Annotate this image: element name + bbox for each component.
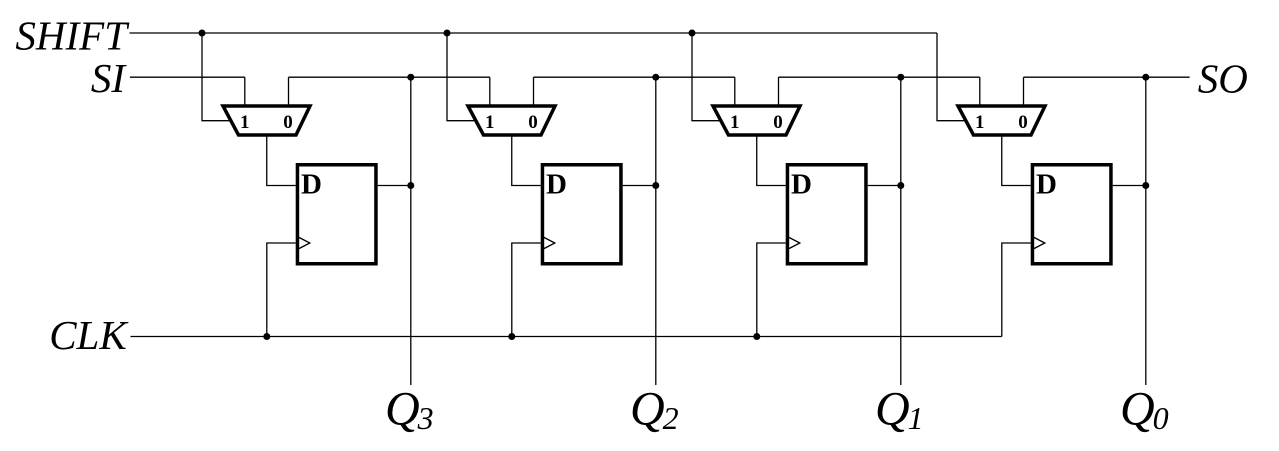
- junction Q output stage 1: [407, 182, 414, 189]
- wire clock riser FF4: [1002, 243, 1031, 337]
- svg-text:CLK: CLK: [49, 312, 129, 358]
- wire Q1 feedback / to next stage: [779, 76, 980, 78]
- wire clock riser FF1: [267, 243, 296, 337]
- wire FF2 Q output: [623, 185, 656, 187]
- junction on hold line stage 4: [1142, 74, 1149, 81]
- wire Q2 feedback / to next stage: [534, 76, 735, 78]
- flip-flop FF2 clock chevron: [543, 237, 555, 249]
- svg-text:1: 1: [730, 112, 740, 133]
- D flip-flop FF2: [542, 165, 621, 264]
- svg-text:0: 0: [773, 112, 783, 133]
- wire mux U2 input 0 riser: [533, 77, 535, 107]
- wire mux U3 output to D input: [757, 134, 786, 186]
- wire Q3 feedback / to next stage: [289, 76, 490, 78]
- wire Q1 vertical: [900, 77, 902, 385]
- flip-flop FF3 clock chevron: [788, 237, 800, 249]
- svg-text:SI: SI: [91, 55, 128, 101]
- mux U1 (2:1): [223, 106, 310, 135]
- wire SHIFT bus: [130, 32, 938, 34]
- wire mux U1 input 1 drop: [244, 77, 246, 107]
- wire clock riser FF3: [757, 243, 786, 337]
- wire FF4 Q output: [1113, 185, 1146, 187]
- junction Q output stage 4: [1142, 182, 1149, 189]
- svg-text:0: 0: [283, 112, 293, 133]
- wire SHIFT select drop to mux U2: [447, 33, 477, 121]
- wire SHIFT select drop to mux U3: [692, 33, 722, 121]
- svg-text:D: D: [301, 169, 322, 201]
- svg-text:D: D: [1036, 169, 1057, 201]
- wire FF1 Q output: [378, 185, 411, 187]
- wire FF3 Q output: [868, 185, 901, 187]
- wire mux U4 input 1 drop: [979, 77, 981, 107]
- wire Q0 vertical: [1145, 77, 1147, 385]
- svg-text:D: D: [791, 169, 812, 201]
- wire mux U3 input 0 riser: [778, 77, 780, 107]
- junction on hold line stage 2: [652, 74, 659, 81]
- svg-text:0: 0: [1018, 112, 1028, 133]
- wire mux U4 output to D input: [1002, 134, 1031, 186]
- svg-text:1: 1: [485, 112, 495, 133]
- wire mux U2 output to D input: [512, 134, 541, 186]
- junction on SHIFT bus: [199, 30, 206, 37]
- wire mux U2 input 1 drop: [489, 77, 491, 107]
- wire SI input: [130, 76, 245, 78]
- junction Q output stage 2: [652, 182, 659, 189]
- wire CLK bus: [131, 336, 1002, 338]
- wire clock riser FF2: [512, 243, 541, 337]
- junction on CLK bus stage 2: [508, 333, 515, 340]
- svg-text:1: 1: [975, 112, 985, 133]
- mux U2 (2:1): [468, 106, 555, 135]
- svg-text:D: D: [546, 169, 567, 201]
- junction on hold line stage 3: [897, 74, 904, 81]
- mux U3 (2:1): [713, 106, 800, 135]
- svg-text:SO: SO: [1198, 56, 1248, 102]
- junction Q output stage 3: [897, 182, 904, 189]
- D flip-flop FF1: [297, 165, 376, 264]
- D flip-flop FF3: [787, 165, 866, 264]
- wire mux U3 input 1 drop: [734, 77, 736, 107]
- wire mux U1 input 0 riser: [288, 77, 290, 107]
- mux U4 (2:1): [958, 106, 1045, 135]
- svg-text:1: 1: [240, 112, 250, 133]
- flip-flop FF1 clock chevron: [298, 237, 310, 249]
- junction on CLK bus stage 1: [263, 333, 270, 340]
- wire Q0 feedback to SO: [1024, 76, 1190, 78]
- svg-text:SHIFT: SHIFT: [15, 13, 130, 59]
- junction on hold line stage 1: [407, 74, 414, 81]
- wire Q3 vertical: [410, 77, 412, 385]
- flip-flop FF4 clock chevron: [1033, 237, 1045, 249]
- wire mux U1 output to D input: [267, 134, 296, 186]
- svg-text:0: 0: [528, 112, 538, 133]
- junction on SHIFT bus: [444, 30, 451, 37]
- wire Q2 vertical: [655, 77, 657, 385]
- wire SHIFT select drop to mux U4: [937, 33, 967, 121]
- junction on CLK bus stage 3: [753, 333, 760, 340]
- D flip-flop FF4: [1032, 165, 1111, 264]
- junction on SHIFT bus: [689, 30, 696, 37]
- wire SHIFT select drop to mux U1: [202, 33, 232, 121]
- wire mux U4 input 0 riser: [1023, 77, 1025, 107]
